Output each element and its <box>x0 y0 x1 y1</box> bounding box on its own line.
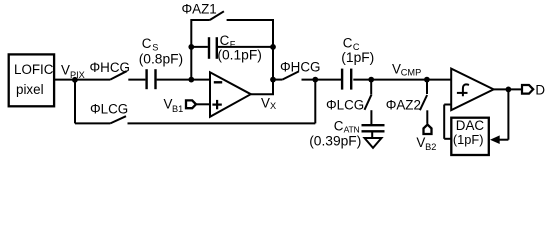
svg-text:(0.1pF): (0.1pF) <box>217 47 261 62</box>
svg-text:(0.8pF): (0.8pF) <box>139 51 183 66</box>
svg-text:PIX: PIX <box>70 70 85 80</box>
svg-text:LOFIC: LOFIC <box>14 62 54 77</box>
svg-text:B1: B1 <box>172 104 183 114</box>
svg-text:C: C <box>220 33 230 48</box>
svg-text:C: C <box>142 36 152 51</box>
svg-text:V: V <box>261 95 270 110</box>
svg-text:C: C <box>343 35 353 50</box>
svg-text:DAC: DAC <box>456 118 485 133</box>
svg-text:(1pF): (1pF) <box>341 50 374 65</box>
svg-text:B2: B2 <box>425 142 436 152</box>
svg-text:ΦAZ2: ΦAZ2 <box>386 98 421 113</box>
svg-text:V: V <box>416 135 425 150</box>
svg-text:(0.39pF): (0.39pF) <box>309 134 361 149</box>
svg-text:ΦLCG: ΦLCG <box>326 97 364 112</box>
svg-text:X: X <box>270 101 276 111</box>
svg-text:D: D <box>535 83 545 98</box>
svg-text:ΦLCG: ΦLCG <box>90 102 128 117</box>
svg-text:ΦHCG: ΦHCG <box>280 59 320 74</box>
svg-text:ΦAZ1: ΦAZ1 <box>182 2 217 17</box>
svg-text:V: V <box>392 62 401 77</box>
svg-text:V: V <box>61 63 70 78</box>
svg-text:ΦHCG: ΦHCG <box>90 60 130 75</box>
svg-text:C: C <box>334 118 344 133</box>
svg-text:pixel: pixel <box>16 82 44 97</box>
svg-text:(1pF): (1pF) <box>453 132 484 147</box>
svg-text:CMP: CMP <box>401 68 421 78</box>
